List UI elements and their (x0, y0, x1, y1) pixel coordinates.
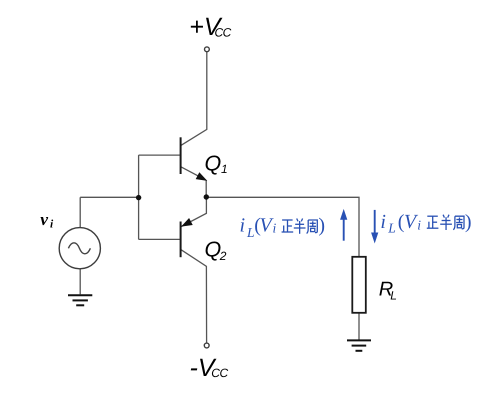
svg-text:i: i (240, 215, 246, 237)
svg-text:CC: CC (215, 26, 232, 40)
svg-text:L: L (390, 288, 397, 302)
svg-text:L: L (387, 221, 396, 236)
svg-text:i: i (417, 217, 421, 232)
svg-text:i: i (380, 211, 386, 233)
svg-text:1: 1 (221, 162, 228, 176)
svg-text:i: i (273, 221, 277, 236)
svg-text:CC: CC (211, 366, 228, 380)
svg-text:): ) (318, 215, 325, 237)
svg-text:): ) (465, 211, 472, 233)
svg-text:Q: Q (205, 152, 222, 176)
svg-text:v: v (40, 209, 48, 229)
svg-text:2: 2 (219, 249, 227, 263)
